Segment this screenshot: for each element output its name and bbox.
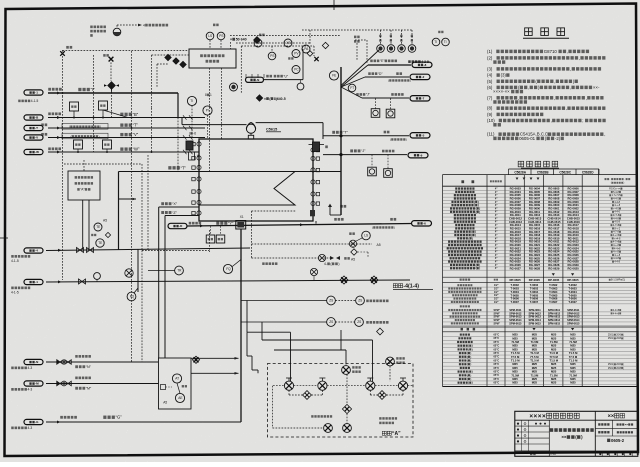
svg-text:TE: TE bbox=[98, 241, 102, 245]
svg-text:“U”: “U” bbox=[283, 74, 288, 78]
pipe nitrogen 2 bbox=[46, 280, 410, 282]
detail bottom valve 2 bbox=[343, 424, 352, 433]
svg-text:M25: M25 bbox=[551, 381, 557, 385]
svg-text:(: ( bbox=[467, 355, 468, 359]
valve circle x129 bbox=[125, 269, 133, 277]
svg-text:(1): (1) bbox=[487, 49, 493, 54]
svg-text:“M”: “M” bbox=[86, 387, 92, 391]
detail valve HV2 bbox=[318, 381, 327, 390]
svg-text:×: × bbox=[230, 38, 232, 42]
svg-text:××-: ××- bbox=[593, 85, 600, 90]
stream flag 级至-J bbox=[410, 96, 430, 101]
svg-text:): ) bbox=[472, 236, 473, 240]
svg-text:M25: M25 bbox=[532, 381, 538, 385]
svg-text:PS: PS bbox=[219, 34, 223, 38]
svg-text:20/6: 20/6 bbox=[616, 363, 621, 366]
dashed corners right bbox=[151, 55, 153, 108]
left cluster circles near condenser bbox=[187, 96, 196, 105]
svg-text:TR: TR bbox=[177, 269, 182, 273]
svg-text:77.5 M: 77.5 M bbox=[530, 355, 539, 359]
svg-text:65"C: 65"C bbox=[494, 341, 500, 344]
svg-text:TE: TE bbox=[96, 225, 100, 229]
svg-text:ZS: ZS bbox=[329, 320, 333, 324]
svg-text:,: , bbox=[528, 85, 529, 90]
svg-text:M25: M25 bbox=[512, 347, 518, 351]
svg-text:1:50: 1:50 bbox=[550, 452, 556, 456]
svg-text:4-3: 4-3 bbox=[28, 366, 33, 370]
pipe from condenser right y171 bbox=[295, 171, 341, 173]
table RP header row bbox=[460, 278, 626, 282]
svg-text:65"C: 65"C bbox=[494, 374, 500, 377]
svg-text:;: ; bbox=[582, 118, 583, 123]
svg-text:): ) bbox=[406, 138, 407, 142]
svg-text:(: ( bbox=[390, 138, 391, 142]
svg-text:): ) bbox=[472, 370, 473, 374]
condenser internal banner bbox=[199, 172, 295, 206]
svg-text:1: 1 bbox=[210, 93, 212, 97]
stream flag 风至-1 bbox=[24, 279, 43, 284]
big dashed enclosure bbox=[64, 163, 142, 165]
svg-text:“G”: “G” bbox=[116, 415, 123, 420]
svg-text:M25: M25 bbox=[570, 377, 576, 381]
note box 用于脱蜡安装口保温 bbox=[62, 124, 108, 130]
svg-text:65"C: 65"C bbox=[494, 337, 500, 340]
connector horizontal y373 bbox=[191, 372, 239, 374]
svg-text:65"C: 65"C bbox=[494, 363, 500, 366]
pipe elbow line I down bbox=[177, 93, 179, 118]
title block drawing number bbox=[607, 439, 610, 442]
svg-text:“B”: “B” bbox=[133, 112, 139, 117]
svg-text:-1: -1 bbox=[35, 91, 38, 95]
riser x241 to product line bbox=[240, 229, 242, 422]
corner mark x62 bbox=[60, 51, 65, 56]
svg-text:M25: M25 bbox=[512, 381, 518, 385]
svg-text:××: ×× bbox=[608, 414, 615, 420]
svg-text:(: ( bbox=[467, 351, 468, 355]
condenser equipment body C5628 bbox=[199, 139, 313, 221]
svg-text:8: 8 bbox=[205, 93, 207, 97]
svg-text:T-0607: T-0607 bbox=[530, 300, 539, 304]
dark circle x131 bbox=[127, 292, 136, 301]
svg-text:): ) bbox=[394, 226, 395, 230]
extra instrument circle y43 c bbox=[268, 52, 276, 60]
svg-text:B-1.5MPa(G): B-1.5MPa(G) bbox=[611, 279, 625, 282]
svg-text:XS: XS bbox=[286, 41, 290, 45]
svg-text:RP-0605: RP-0605 bbox=[567, 278, 579, 282]
svg-text:“T”: “T” bbox=[181, 165, 187, 170]
pipe line T horizontal y171 bbox=[119, 171, 200, 173]
svg-text:“T”: “T” bbox=[343, 131, 348, 135]
title block frame bbox=[515, 411, 638, 456]
instrument circle above box 2 bbox=[217, 32, 225, 40]
svg-text:M25: M25 bbox=[551, 344, 557, 348]
detail dashed connectors bbox=[273, 385, 284, 387]
main riser x341 bbox=[340, 67, 342, 215]
pipe line J 蒸汽凝液 bbox=[362, 97, 409, 99]
svg-text:-2: -2 bbox=[422, 75, 425, 79]
svg-text:): ) bbox=[472, 381, 473, 385]
valve diamond on line I bbox=[108, 82, 116, 90]
svg-text:65"C: 65"C bbox=[494, 356, 500, 359]
svg-text:“J”: “J” bbox=[361, 149, 366, 153]
signal dashed vertical x111 bbox=[111, 89, 113, 117]
svg-text:“A”: “A” bbox=[80, 188, 84, 192]
svg-text:,: , bbox=[566, 106, 567, 111]
switch circle 1a bbox=[327, 296, 336, 305]
pipe line E 气体出口 bbox=[368, 64, 411, 66]
svg-text:T1.5 M: T1.5 M bbox=[511, 351, 520, 355]
svg-text:SPM": SPM" bbox=[494, 322, 500, 325]
dark instrument far left bbox=[230, 83, 238, 91]
svg-text:A5: A5 bbox=[163, 401, 167, 405]
connector step 3 bbox=[274, 349, 346, 351]
svg-text:M25: M25 bbox=[570, 362, 576, 366]
table header cells C5628A-D bbox=[508, 169, 510, 175]
svg-text:PC: PC bbox=[294, 68, 299, 72]
vertical pipe x303 bbox=[302, 49, 304, 80]
notes panel title 备注栏 bbox=[525, 28, 533, 36]
svg-text:·: · bbox=[624, 178, 625, 181]
thermocouple leads from note box bbox=[82, 200, 84, 249]
flow arrows on pipes bbox=[57, 92, 60, 95]
svg-text:65"C: 65"C bbox=[494, 348, 500, 351]
pipe line I bbox=[48, 92, 178, 94]
fan line to J outlet bbox=[341, 87, 362, 98]
svg-text:2501(: 2501( bbox=[608, 337, 614, 340]
svg-text:“Z”: “Z” bbox=[172, 211, 177, 215]
svg-text:(4): (4) bbox=[487, 73, 493, 78]
condenser right top valve bbox=[313, 142, 320, 152]
svg-text:RG-0620: RG-0620 bbox=[568, 266, 580, 270]
svg-text:FT: FT bbox=[350, 86, 354, 90]
analyzer side fitting bbox=[161, 385, 166, 390]
svg-text:,: , bbox=[554, 79, 555, 84]
table section A rows bbox=[443, 187, 638, 271]
svg-text:M25: M25 bbox=[532, 377, 538, 381]
main pipe line A y226 bbox=[187, 224, 412, 227]
svg-text:SPM-0615: SPM-0615 bbox=[509, 321, 522, 325]
svg-text:M25: M25 bbox=[551, 362, 557, 366]
stream flag steam right bbox=[410, 133, 430, 138]
condenser nozzles right bbox=[311, 148, 315, 152]
analyzer box bbox=[159, 358, 192, 409]
note box 用于气体出口管保温 bbox=[62, 133, 108, 139]
svg-text:FQ: FQ bbox=[130, 295, 135, 299]
svg-text:4-3: 4-3 bbox=[28, 388, 33, 392]
detail valve top right LV2 bbox=[386, 357, 395, 366]
tick marks top area bbox=[245, 74, 247, 78]
signal dashed horizontal y43 bbox=[236, 42, 310, 44]
svg-text:,: , bbox=[567, 49, 568, 54]
svg-text:M25: M25 bbox=[551, 336, 557, 340]
svg-text:××××-××: ××××-×× bbox=[493, 89, 510, 94]
svg-text:ZS: ZS bbox=[329, 299, 333, 303]
notes text block bbox=[487, 49, 606, 141]
pipe line T bbox=[48, 127, 205, 129]
svg-text:20/8: 20/8 bbox=[616, 337, 621, 340]
svg-text:“A”: “A” bbox=[392, 431, 401, 437]
svg-text:T1.5 M: T1.5 M bbox=[530, 359, 539, 363]
svg-text:77.5 M: 77.5 M bbox=[511, 355, 520, 359]
svg-text:M25: M25 bbox=[512, 366, 518, 370]
svg-text:): ) bbox=[470, 358, 471, 362]
dark diamond x316 bbox=[314, 57, 318, 61]
signal dashed vertical x230 bbox=[230, 42, 232, 49]
svg-text:(: ( bbox=[468, 370, 469, 374]
title block bottom row bbox=[515, 450, 638, 452]
svg-text:4: 4 bbox=[143, 23, 145, 27]
svg-text:RG-0629: RG-0629 bbox=[548, 266, 560, 270]
svg-text:T1.5 M: T1.5 M bbox=[550, 351, 559, 355]
svg-text:71.5M: 71.5M bbox=[569, 373, 577, 377]
svg-text:): ) bbox=[338, 262, 339, 266]
svg-text:“W”: “W” bbox=[133, 147, 140, 152]
stream flag 级至-D bbox=[410, 74, 430, 79]
connector step 1 bbox=[247, 331, 291, 333]
signal dashed vertical x151 bbox=[151, 108, 153, 152]
svg-text:65"C: 65"C bbox=[494, 371, 500, 374]
vertical pipe x138 bbox=[137, 250, 139, 293]
pipe Z elbow from condenser bbox=[165, 215, 199, 217]
vent stack 放空 bbox=[330, 214, 341, 216]
relief valve on condenser top bbox=[182, 124, 247, 126]
interlock signal row 1 bbox=[252, 243, 373, 245]
relief valve outlet pipe bbox=[256, 122, 323, 124]
svg-text:××: ×× bbox=[561, 435, 567, 440]
svg-text:RG-0627: RG-0627 bbox=[510, 266, 522, 270]
stream flag 凝液出口 M bbox=[24, 381, 43, 386]
svg-text:“J”: “J” bbox=[366, 93, 370, 97]
pipe X elbow from condenser bbox=[159, 206, 199, 208]
title block stage cells bbox=[595, 427, 638, 429]
svg-text:,: , bbox=[586, 95, 587, 100]
svg-text:71.5M: 71.5M bbox=[511, 340, 519, 344]
valve dark on N bbox=[192, 356, 199, 363]
svg-text:65"C: 65"C bbox=[494, 378, 500, 381]
pipe line D 氮气 bbox=[365, 76, 409, 78]
svg-text:(: ( bbox=[468, 236, 469, 240]
svg-text:(: ( bbox=[467, 362, 468, 366]
svg-text:(2): (2) bbox=[487, 55, 493, 60]
svg-text:2501(: 2501( bbox=[608, 367, 614, 370]
junction instrument bbox=[348, 84, 356, 92]
svg-text:8)640-5: 8)640-5 bbox=[274, 97, 286, 101]
valve pair on nitrogen 2 line bbox=[310, 268, 317, 275]
svg-text:): ) bbox=[100, 125, 101, 129]
instrument below nitrogen line bbox=[297, 83, 304, 90]
signal dashed vertical x178b bbox=[177, 118, 179, 172]
svg-text:65"C: 65"C bbox=[494, 367, 500, 370]
dashed signal y50 bbox=[63, 50, 190, 52]
pipe line B bbox=[48, 117, 205, 119]
dark diamond and label row y98 bbox=[256, 95, 262, 101]
svg-text:M25: M25 bbox=[551, 333, 557, 337]
svg-text:M25: M25 bbox=[512, 377, 518, 381]
svg-text:M25: M25 bbox=[570, 370, 576, 374]
svg-text:71.5M: 71.5M bbox=[511, 373, 519, 377]
svg-text:C5615: C5615 bbox=[266, 128, 277, 132]
control valve on row 2 bbox=[318, 254, 325, 261]
svg-text:77.5 M: 77.5 M bbox=[549, 355, 558, 359]
svg-text:71.5M: 71.5M bbox=[550, 373, 558, 377]
svg-text:-4(1-4): -4(1-4) bbox=[403, 284, 419, 290]
interlock signal row 2 bbox=[252, 257, 331, 259]
svg-text:××××: ×××× bbox=[529, 413, 546, 420]
instrument circles pair far right bbox=[432, 38, 440, 46]
stream flag 蒸汽 line T bbox=[24, 125, 43, 130]
pipe line W bbox=[48, 151, 199, 153]
logic box 冷凝器逻辑箱程序控制器 bbox=[189, 49, 236, 68]
title block revision grid bbox=[515, 425, 550, 427]
svg-text:ZS: ZS bbox=[357, 320, 361, 324]
svg-text:(: ( bbox=[468, 344, 469, 348]
svg-text:M25: M25 bbox=[532, 347, 538, 351]
detail valve HV1 bbox=[284, 381, 293, 390]
svg-text:M25: M25 bbox=[532, 370, 538, 374]
svg-text:): ) bbox=[470, 362, 471, 366]
svg-text:,: , bbox=[579, 55, 580, 60]
svg-text:TI: TI bbox=[434, 40, 437, 44]
connector verticals bbox=[290, 332, 292, 381]
svg-text:M25: M25 bbox=[551, 377, 557, 381]
svg-text:A5: A5 bbox=[103, 219, 107, 223]
svg-text:M25: M25 bbox=[512, 344, 518, 348]
svg-text:“V”: “V” bbox=[133, 132, 139, 137]
instrument square FI-3 bbox=[74, 140, 83, 149]
signal lines above logic box bbox=[209, 40, 211, 49]
svg-text:-4: -4 bbox=[35, 249, 38, 253]
note box 热电偶接点 bbox=[68, 171, 100, 200]
condenser small fitting mid-left bbox=[189, 152, 195, 160]
stream flag 气体出口 line I bbox=[24, 90, 43, 95]
dark diamond on manifold bbox=[254, 37, 261, 44]
svg-text:2501(: 2501( bbox=[608, 334, 614, 337]
svg-text:(10): (10) bbox=[487, 118, 495, 123]
svg-text:2501(: 2501( bbox=[608, 363, 614, 366]
svg-text:4-1-5: 4-1-5 bbox=[11, 290, 19, 294]
tick marks near equipment inlet bbox=[183, 115, 187, 119]
svg-text:M25: M25 bbox=[551, 347, 557, 351]
svg-text:0605-2: 0605-2 bbox=[611, 438, 625, 443]
analyzer circle 2 bbox=[175, 393, 184, 402]
detail bottom valve 1 bbox=[324, 424, 333, 433]
switch circle 1b bbox=[356, 296, 365, 305]
svg-text:0605-01: 0605-01 bbox=[519, 136, 536, 141]
svg-text:M25: M25 bbox=[570, 344, 576, 348]
svg-text:65"C: 65"C bbox=[494, 352, 500, 355]
equipment bottom corner fitting bbox=[310, 210, 315, 216]
detail diamond valve left bbox=[303, 391, 312, 400]
instrument circle y30 bbox=[302, 45, 310, 53]
interlock row 3 bbox=[252, 210, 297, 212]
svg-text:-6: -6 bbox=[423, 221, 426, 225]
detail A label bbox=[382, 431, 386, 435]
junction circle bbox=[329, 71, 338, 80]
svg-text:AE: AE bbox=[178, 396, 182, 400]
svg-text:RP-0605: RP-0605 bbox=[509, 278, 521, 282]
svg-text:LS: LS bbox=[208, 34, 212, 38]
svg-text:(7): (7) bbox=[487, 95, 493, 100]
open diamond right bbox=[322, 42, 328, 48]
signal dashed vertical x62 bbox=[62, 96, 64, 280]
svg-text:M25: M25 bbox=[512, 370, 518, 374]
instrument circles cluster top right bbox=[377, 45, 385, 53]
svg-text:LS: LS bbox=[364, 234, 368, 238]
svg-text:): ) bbox=[475, 233, 476, 237]
stream flag 醛产品出口 G bbox=[24, 419, 43, 424]
instrument square FI-1 bbox=[70, 102, 79, 111]
table mid marker row bbox=[552, 273, 555, 276]
valve on dashed drop x111 bbox=[109, 57, 114, 62]
dashed vertical x148 bbox=[147, 155, 149, 250]
svg-text:(: ( bbox=[388, 79, 389, 83]
junction dots on pipes bbox=[73, 117, 75, 119]
svg-text:T1.5 M: T1.5 M bbox=[511, 359, 520, 363]
switch circle 2b bbox=[355, 318, 364, 327]
svg-text:-1: -1 bbox=[35, 280, 38, 284]
svg-text:(: ( bbox=[372, 226, 373, 230]
title block drawing title bbox=[550, 428, 553, 432]
svg-text:(: ( bbox=[475, 266, 476, 270]
stream flag 蒸汽凝液 line W bbox=[24, 149, 43, 154]
svg-text:××: ×× bbox=[625, 423, 629, 427]
svg-text:M25: M25 bbox=[570, 366, 576, 370]
svg-text:T1.5 M: T1.5 M bbox=[530, 351, 539, 355]
svg-text:“I”: “I” bbox=[91, 87, 96, 92]
control valve on row 1 bbox=[349, 240, 356, 247]
svg-text:-5: -5 bbox=[422, 133, 425, 137]
svg-text:C5628D: C5628D bbox=[582, 170, 594, 174]
fan line to D outlet bbox=[341, 77, 365, 87]
detail A boundary box bbox=[268, 364, 414, 438]
svg-text:M25: M25 bbox=[570, 336, 576, 340]
svg-text:20/8: 20/8 bbox=[616, 367, 621, 370]
svg-text:“T”: “T” bbox=[133, 123, 139, 128]
svg-text:(11): (11) bbox=[487, 132, 495, 137]
svg-text:(9): (9) bbox=[487, 112, 493, 117]
detail valve HV3 bbox=[366, 381, 375, 390]
condenser top nozzle valve bbox=[186, 141, 193, 150]
pipe line V bbox=[48, 137, 205, 139]
svg-text:×: × bbox=[264, 97, 266, 101]
svg-text:AT: AT bbox=[175, 377, 179, 381]
pipe condensate N bbox=[46, 361, 158, 363]
svg-text:(: ( bbox=[69, 125, 70, 129]
svg-text:): ) bbox=[479, 266, 480, 270]
svg-text:,: , bbox=[570, 85, 571, 90]
svg-text:PI: PI bbox=[206, 109, 209, 113]
dashed corner near circles bbox=[366, 40, 368, 63]
svg-text:): ) bbox=[99, 134, 100, 138]
svg-text:-9: -9 bbox=[420, 153, 423, 157]
stream flag 蒸汽 line V bbox=[24, 135, 43, 140]
svg-text:G8710: G8710 bbox=[544, 49, 558, 54]
svg-text:50 640: 50 640 bbox=[236, 38, 247, 42]
svg-text:71.5M: 71.5M bbox=[569, 340, 577, 344]
dark valve 1 on line bbox=[340, 276, 348, 284]
svg-text:FQ: FQ bbox=[226, 267, 231, 271]
svg-text:4-3: 4-3 bbox=[28, 426, 33, 430]
stream flag on line A bbox=[168, 223, 187, 228]
svg-text:(: ( bbox=[468, 381, 469, 385]
svg-text:T1.5 M: T1.5 M bbox=[569, 359, 578, 363]
svg-text:RP-0605: RP-0605 bbox=[529, 278, 541, 282]
svg-text:M25: M25 bbox=[512, 336, 518, 340]
interlock label 联锁-4 bbox=[393, 284, 397, 288]
svg-text:RG-0628: RG-0628 bbox=[529, 266, 541, 270]
pipe nitrogen 1 bbox=[46, 248, 250, 251]
stream flag 级至-E bbox=[412, 62, 432, 67]
